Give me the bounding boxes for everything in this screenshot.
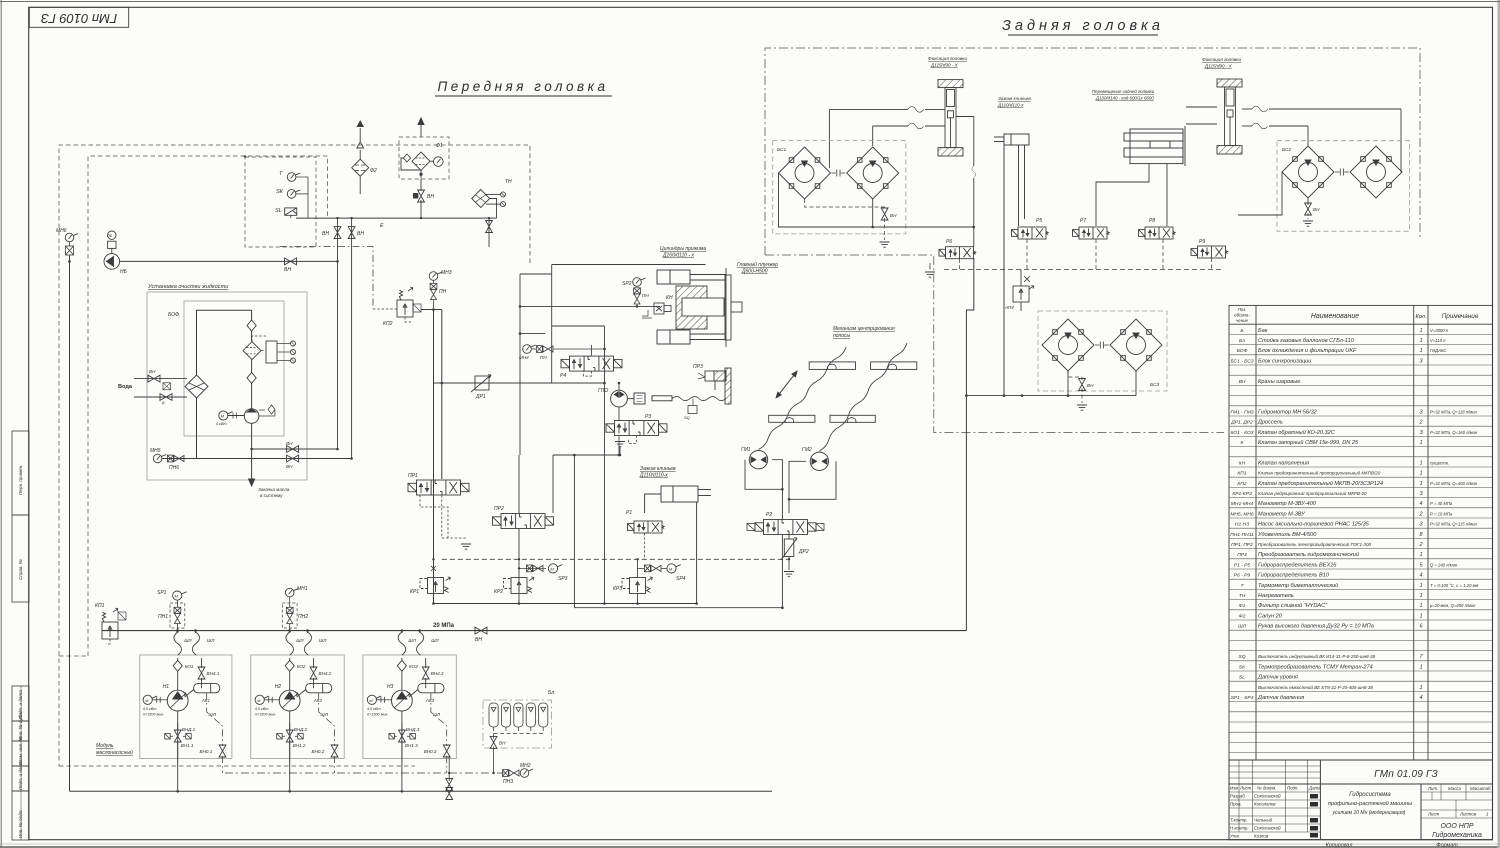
svg-text:МН5: МН5 xyxy=(150,448,161,454)
svg-text:ВН: ВН xyxy=(427,194,434,200)
svg-text:Фильтр сливной “HYDAC”: Фильтр сливной “HYDAC” xyxy=(1258,602,1328,609)
svg-text:ВН0.1: ВН0.1 xyxy=(200,749,213,754)
svg-text:1: 1 xyxy=(1419,613,1422,619)
R2 valve (double solenoid) xyxy=(755,520,816,535)
svg-text:ГИДАКС: ГИДАКС xyxy=(1430,348,1447,353)
svg-text:SQ: SQ xyxy=(684,415,690,420)
svg-text:SР4: SР4 xyxy=(676,576,686,582)
svg-text:ШЛ: ШЛ xyxy=(209,712,217,717)
svg-text:Преобразователь гидромеханичес: Преобразователь гидромеханический xyxy=(1258,551,1359,558)
GPO hydraulic motor with rack xyxy=(611,390,726,413)
svg-text:4,5 кВт: 4,5 кВт xyxy=(143,707,157,711)
sensor SL xyxy=(285,208,297,215)
svg-text:ШЛ: ШЛ xyxy=(184,638,192,643)
left margin boxes xyxy=(12,431,29,840)
svg-text:Лист: Лист xyxy=(1239,786,1252,791)
svg-text:Д115/d90 - Х: Д115/d90 - Х xyxy=(930,63,959,68)
svg-text:ВН: ВН xyxy=(499,741,506,746)
svg-text:ВН0.2: ВН0.2 xyxy=(312,749,325,754)
svg-text:НБ: НБ xyxy=(120,269,128,275)
dashed drain of rear head xyxy=(944,269,1224,271)
svg-text:Р5: Р5 xyxy=(1036,218,1042,224)
svg-text:усилием 10 Мн (модернизация): усилием 10 Мн (модернизация) xyxy=(1332,810,1406,816)
svg-text:1: 1 xyxy=(1419,471,1422,477)
svg-text:Зажим клиньев: Зажим клиньев xyxy=(998,96,1031,101)
pilot dash to KP2 xyxy=(280,247,373,310)
svg-text:1: 1 xyxy=(1419,328,1422,334)
svg-text:Н1-Н3: Н1-Н3 xyxy=(1235,522,1249,528)
svg-text:ПН2: ПН2 xyxy=(298,614,308,620)
svg-text:Справ. №: Справ. № xyxy=(18,559,23,580)
valves BH on risers from line E xyxy=(337,218,339,449)
roller bars xyxy=(769,362,917,422)
breather F2 xyxy=(352,121,369,194)
svg-text:в систему: в систему xyxy=(260,493,283,498)
svg-text:Н3: Н3 xyxy=(387,684,394,690)
svg-text:Д600-Н500: Д600-Н500 xyxy=(741,269,768,275)
svg-text:Р7: Р7 xyxy=(1080,218,1086,224)
svg-text:ГПО: ГПО xyxy=(598,388,608,394)
SP3 sensor set xyxy=(519,567,546,569)
R3 valve xyxy=(606,421,667,436)
MN3 / PN4 xyxy=(429,272,442,281)
svg-text:ВН: ВН xyxy=(1087,383,1094,388)
svg-text:ГМ1: ГМ1 xyxy=(741,447,751,453)
svg-text:Р = 10 МПа: Р = 10 МПа xyxy=(1430,511,1453,516)
svg-text:чение: чение xyxy=(1236,318,1249,323)
sensor T xyxy=(287,173,300,182)
svg-text:ПБ: ПБ xyxy=(107,233,113,238)
PR3 hydromech transducer xyxy=(698,368,731,404)
main plunger block (hatched) xyxy=(676,268,742,347)
svg-text:Р1: Р1 xyxy=(626,510,632,516)
svg-text:Инв. № дубл.: Инв. № дубл. xyxy=(18,712,23,740)
svg-text:ПН: ПН xyxy=(540,355,547,360)
svg-text:ГМ2: ГМ2 xyxy=(802,447,812,453)
svg-text:КП2: КП2 xyxy=(383,321,393,327)
svg-text:1: 1 xyxy=(1419,593,1422,599)
svg-text:Нагреватель: Нагреватель xyxy=(1258,593,1294,599)
svg-text:n=1500 мин: n=1500 мин xyxy=(367,713,389,717)
fixation 2 hoses to BS2 xyxy=(1186,107,1401,172)
tank drain near PR2 top xyxy=(553,447,620,513)
svg-text:Манометр М-3ВУ: Манометр М-3ВУ xyxy=(1258,511,1306,517)
line E xyxy=(296,217,497,219)
svg-text:Кол.: Кол. xyxy=(1416,314,1427,320)
svg-text:Масса: Масса xyxy=(1448,786,1462,791)
svg-text:Гидрораспределитель ВЕХ16: Гидрораспределитель ВЕХ16 xyxy=(1258,562,1337,568)
BOF circuit xyxy=(197,310,252,486)
AP4 pilot relief xyxy=(1013,270,1034,312)
svg-text:Р6 - Р9: Р6 - Р9 xyxy=(1234,573,1251,579)
svg-text:ООО НПР: ООО НПР xyxy=(1440,823,1473,830)
svg-text:Р4: Р4 xyxy=(560,373,566,379)
svg-text:1: 1 xyxy=(1419,583,1422,589)
svg-text:Листов: Листов xyxy=(1459,812,1477,817)
svg-text:Д110/d110-х: Д110/d110-х xyxy=(997,103,1024,108)
heater TN xyxy=(472,190,506,248)
svg-text:Бак: Бак xyxy=(1258,328,1268,334)
svg-text:4: 4 xyxy=(1419,501,1422,507)
svg-text:АК2: АК2 xyxy=(313,698,323,703)
svg-text:Д100/d140 - ход 600/1х 6600: Д100/d140 - ход 600/1х 6600 xyxy=(1095,96,1154,101)
svg-text:Передняя головка: Передняя головка xyxy=(438,79,609,94)
R1 valve xyxy=(628,521,665,533)
svg-text:ВН0.3: ВН0.3 xyxy=(424,749,437,754)
BS1 sync block xyxy=(773,141,906,234)
svg-text:БС2: БС2 xyxy=(1282,147,1291,153)
svg-text:1: 1 xyxy=(1419,338,1422,344)
svg-text:Лист: Лист xyxy=(1427,812,1440,817)
svg-text:Р6: Р6 xyxy=(946,239,952,245)
svg-text:Клапан редукционный пропорцион: Клапан редукционный пропорциональный МКР… xyxy=(1258,490,1367,496)
svg-text:КР2: КР2 xyxy=(494,589,503,595)
svg-text:Стойка газовых баллонов СГБл-1: Стойка газовых баллонов СГБл-110 xyxy=(1258,337,1355,344)
BS1 piping xyxy=(779,173,974,227)
svg-text:ПР2: ПР2 xyxy=(494,506,504,512)
svg-text:ШЛ: ШЛ xyxy=(296,638,304,643)
svg-text:Р3: Р3 xyxy=(645,414,651,420)
svg-text:Термометр биметаллический: Термометр биметаллический xyxy=(1258,582,1338,589)
svg-text:обозна-: обозна- xyxy=(1234,313,1250,318)
svg-text:Клапан предохранительный МКПВ-: Клапан предохранительный МКПВ-20/3С3Р124 xyxy=(1258,480,1383,487)
svg-text:МН1: МН1 xyxy=(297,586,308,592)
svg-text:МН6: МН6 xyxy=(56,228,67,234)
svg-text:ШЛ: ШЛ xyxy=(207,638,215,643)
suction gauge MN6 xyxy=(65,233,78,242)
MN4 gauge set on line y=349 xyxy=(523,345,536,354)
svg-text:Фиксация головки: Фиксация головки xyxy=(928,56,967,61)
svg-text:Наименование: Наименование xyxy=(1311,313,1359,320)
svg-text:Н1: Н1 xyxy=(163,684,170,690)
svg-text:Поз.: Поз. xyxy=(1238,307,1247,312)
KN fill valve xyxy=(642,303,671,318)
svg-text:ВН4.2: ВН4.2 xyxy=(319,671,332,676)
svg-text:Датчик давления: Датчик давления xyxy=(1257,695,1304,701)
svg-text:ВН1.1: ВН1.1 xyxy=(181,743,194,748)
bottom collector lines xyxy=(70,790,773,792)
svg-text:АК1: АК1 xyxy=(201,698,211,703)
svg-text:ВН4.1: ВН4.1 xyxy=(207,671,220,676)
filter F1 assembly xyxy=(399,137,449,179)
svg-text:№ докум.: № докум. xyxy=(1257,786,1276,791)
svg-text:Блок синхронизации: Блок синхронизации xyxy=(1258,358,1311,364)
svg-text:МН4: МН4 xyxy=(519,355,529,360)
svg-text:ШЛ: ШЛ xyxy=(431,638,439,643)
PR1 proportional valve xyxy=(408,480,469,495)
sensor wires xyxy=(291,177,308,218)
svg-text:Закачка масла: Закачка масла xyxy=(258,487,290,492)
svg-text:ГМ1 - ГМ3: ГМ1 - ГМ3 xyxy=(1230,409,1254,415)
svg-text:SL: SL xyxy=(1239,675,1245,681)
MN1 + PN2 xyxy=(285,588,298,597)
BOF filter with bypass xyxy=(243,336,296,363)
svg-text:ВН: ВН xyxy=(286,441,293,446)
svg-text:Инв. № подл.: Инв. № подл. xyxy=(18,809,23,838)
svg-text:ВН4.3: ВН4.3 xyxy=(431,671,444,676)
svg-text:ДР1, ДР2: ДР1, ДР2 xyxy=(1230,420,1253,426)
svg-text:ПН1: ПН1 xyxy=(158,614,168,620)
R5 R7 R8 R9 valves xyxy=(1012,227,1049,239)
drain collectors xyxy=(434,603,697,605)
svg-text:Примечание: Примечание xyxy=(1442,313,1479,320)
svg-text:ТН: ТН xyxy=(1239,593,1246,599)
svg-text:1: 1 xyxy=(1419,481,1422,487)
svg-text:Вода: Вода xyxy=(118,384,133,390)
svg-text:1: 1 xyxy=(1419,664,1422,670)
flexible drive cables xyxy=(759,343,908,451)
svg-text:ПР3: ПР3 xyxy=(693,364,703,370)
svg-text:КР3: КР3 xyxy=(613,586,622,592)
svg-text:Косолапов: Косолапов xyxy=(1254,802,1276,807)
svg-text:ГМп 0109 ГЗ: ГМп 0109 ГЗ xyxy=(41,11,117,26)
svg-text:Р1 - Р5: Р1 - Р5 xyxy=(1234,562,1251,568)
svg-text:БС3: БС3 xyxy=(1150,382,1159,388)
svg-text:Рукав высокого давления Ду32 Р: Рукав высокого давления Ду32 Рy = 10 МПа xyxy=(1258,624,1374,630)
svg-text:Датчик уровня: Датчик уровня xyxy=(1257,675,1298,681)
line from rear head down to main line xyxy=(966,258,973,631)
svg-text:SL: SL xyxy=(275,208,282,214)
svg-text:Клапан обратный КО-20.32С: Клапан обратный КО-20.32С xyxy=(1258,429,1336,436)
svg-text:ПР3: ПР3 xyxy=(1237,552,1247,558)
svg-text:1: 1 xyxy=(1419,348,1422,354)
enclosure dash-dot xyxy=(765,48,1420,433)
KR3 xyxy=(622,577,653,594)
svg-text:ВН: ВН xyxy=(1313,207,1320,212)
svg-text:ПН: ПН xyxy=(642,293,649,298)
svg-text:АК3: АК3 xyxy=(425,698,435,703)
svg-text:Ф1: Ф1 xyxy=(1239,603,1246,609)
svg-text:Цилиндры прижима: Цилиндры прижима xyxy=(660,246,706,252)
svg-text:БОФ: БОФ xyxy=(168,312,179,318)
module boxes xyxy=(140,655,457,759)
svg-text:профильно-растяжной машины: профильно-растяжной машины xyxy=(1328,800,1412,807)
svg-text:КО3: КО3 xyxy=(409,664,418,669)
svg-text:Р=32 МПа, Q=118 л/мин: Р=32 МПа, Q=118 л/мин xyxy=(1430,409,1478,414)
svg-text:Перемещение задней головки: Перемещение задней головки xyxy=(1092,89,1155,94)
svg-text:К: К xyxy=(162,401,165,406)
svg-text:Д110/d110-х: Д110/d110-х xyxy=(639,473,668,479)
svg-text:АП4: АП4 xyxy=(1004,305,1014,310)
KP2 proportional relief xyxy=(373,287,442,322)
svg-text:ПН3: ПН3 xyxy=(503,779,513,785)
svg-text:маслонасосный: маслонасосный xyxy=(96,749,133,756)
svg-text:Ф2: Ф2 xyxy=(1239,613,1246,619)
svg-text:Удовентиль ВМ-4/500: Удовентиль ВМ-4/500 xyxy=(1257,532,1317,538)
svg-text:Клапан наполнения: Клапан наполнения xyxy=(1258,460,1309,466)
svg-text:Соколинский: Соколинский xyxy=(1254,826,1281,831)
svg-text:ДР1: ДР1 xyxy=(475,394,486,400)
svg-text:Главный плунжер: Главный плунжер xyxy=(737,261,778,268)
svg-text:V=110 л: V=110 л xyxy=(1430,338,1446,343)
svg-text:1: 1 xyxy=(1419,685,1422,691)
svg-text:Н.контр.: Н.контр. xyxy=(1230,826,1249,831)
PR2 xyxy=(493,514,554,529)
supply risers xyxy=(433,310,435,604)
svg-text:КП1: КП1 xyxy=(95,603,105,609)
pump variable arrows overlay xyxy=(170,692,410,708)
svg-text:ПР1: ПР1 xyxy=(408,473,418,479)
svg-text:ВНД.2: ВНД.2 xyxy=(294,727,308,732)
svg-text:Утв.: Утв. xyxy=(1230,834,1240,839)
motor brackets and feed lines xyxy=(745,460,836,519)
sensor SK xyxy=(287,190,300,199)
SP4 set xyxy=(644,565,661,572)
svg-text:Дата: Дата xyxy=(1308,786,1321,791)
ports of fixation cylinder 1 xyxy=(829,109,973,246)
svg-text:SК: SК xyxy=(276,189,284,195)
svg-text:4: 4 xyxy=(1419,695,1422,701)
svg-text:μ=20 мкм, Q=400 л/мин: μ=20 мкм, Q=400 л/мин xyxy=(1429,603,1476,608)
pump module H2 xyxy=(290,631,314,792)
module 3 drain riser to dash-dot xyxy=(448,756,450,781)
svg-text:КП2: КП2 xyxy=(1237,481,1246,487)
svg-text:Преобразователь электрогидравл: Преобразователь электрогидравлический ПЭ… xyxy=(1258,541,1371,547)
svg-text:Т.контр.: Т.контр. xyxy=(1230,818,1248,823)
MN2 / PN3 at end of dash-dot drain xyxy=(502,770,519,777)
svg-text:ПН1-ПН11: ПН1-ПН11 xyxy=(1230,532,1254,538)
svg-text:Изм: Изм xyxy=(1230,786,1238,791)
svg-text:ВНД.1: ВНД.1 xyxy=(182,727,196,732)
svg-text:ШЛ: ШЛ xyxy=(319,638,327,643)
DR1 throttle on cross line xyxy=(434,382,605,384)
svg-text:Взам. инв. №: Взам. инв. № xyxy=(18,737,23,765)
svg-text:SР3: SР3 xyxy=(558,576,568,582)
svg-text:SР1: SР1 xyxy=(157,590,167,596)
svg-text:КО1: КО1 xyxy=(185,664,194,669)
svg-text:ШЛ: ШЛ xyxy=(408,638,416,643)
svg-text:Гидрораспределитель В10: Гидрораспределитель В10 xyxy=(1258,573,1330,579)
svg-text:Разраб.: Разраб. xyxy=(1230,794,1246,799)
svg-text:V=3000 л: V=3000 л xyxy=(1430,328,1449,333)
heat exchanger xyxy=(185,375,208,398)
svg-text:Блок охлаждения и фильтрации U: Блок охлаждения и фильтрации UKF xyxy=(1258,348,1357,354)
svg-text:ВН: ВН xyxy=(149,369,156,374)
svg-text:полосы: полосы xyxy=(833,333,851,339)
svg-text:Т = 0-100 °С, L = 1.20 мм: Т = 0-100 °С, L = 1.20 мм xyxy=(1430,583,1478,588)
svg-text:Е: Е xyxy=(380,223,384,229)
svg-text:Термопреобразователь ТСМУ Метр: Термопреобразователь ТСМУ Метран-274 xyxy=(1258,664,1373,670)
BS3 sync block xyxy=(1038,311,1167,391)
svg-text:Чельный: Чельный xyxy=(1254,818,1273,823)
svg-text:Р = 40 МПа: Р = 40 МПа xyxy=(1430,501,1453,506)
suction line down-left xyxy=(69,255,71,791)
svg-text:Р8: Р8 xyxy=(1149,218,1155,224)
E line junction dots xyxy=(244,155,490,219)
svg-text:Р2: Р2 xyxy=(766,512,772,518)
svg-text:ВН: ВН xyxy=(322,231,329,237)
svg-text:МН5, МН6: МН5, МН6 xyxy=(1230,511,1254,517)
svg-text:КР1: КР1 xyxy=(410,589,419,595)
svg-text:n=1500 мин: n=1500 мин xyxy=(255,713,277,717)
svg-text:Фиксация головки: Фиксация головки xyxy=(1202,57,1241,62)
svg-text:ВН1.2: ВН1.2 xyxy=(293,743,306,748)
svg-text:КО1 - КО3: КО1 - КО3 xyxy=(1230,430,1253,436)
svg-text:Ф1: Ф1 xyxy=(436,143,443,149)
BS2 sync block xyxy=(1277,141,1410,232)
svg-text:КН: КН xyxy=(1239,460,1246,466)
svg-text:Выключатель емкостной ВЕ ЕТ8-3: Выключатель емкостной ВЕ ЕТ8-31-Р-20-400… xyxy=(1258,684,1373,690)
R2 left leg to drain collector xyxy=(781,535,783,608)
relief valve KP1 xyxy=(102,608,126,644)
svg-text:ТН: ТН xyxy=(505,179,512,185)
svg-text:4,5 кВт: 4,5 кВт xyxy=(367,707,381,711)
travel cylinder feed lines xyxy=(1096,164,1167,226)
titles xyxy=(438,18,1164,94)
svg-text:ВН1.3: ВН1.3 xyxy=(405,743,418,748)
svg-text:Клапан предохранительный пропо: Клапан предохранительный пропорциональны… xyxy=(1258,470,1381,476)
svg-text:Бл: Бл xyxy=(1239,338,1245,344)
svg-text:Подп. и дата: Подп. и дата xyxy=(18,761,23,790)
long dashed drain line xyxy=(442,558,789,560)
svg-text:SР2: SР2 xyxy=(622,281,632,287)
main pressure line 20 MPa xyxy=(102,630,966,632)
SP1 + PN1 xyxy=(173,591,187,600)
pump module H1 xyxy=(178,631,202,792)
svg-text:МН1-МН4: МН1-МН4 xyxy=(1231,501,1254,507)
svg-text:КН: КН xyxy=(666,295,673,301)
svg-text:Манометр М-3ВУ-400: Манометр М-3ВУ-400 xyxy=(1258,501,1317,507)
svg-text:Подп.: Подп. xyxy=(1287,786,1299,791)
svg-text:Пров.: Пров. xyxy=(1230,802,1242,807)
svg-text:4,5 кВт: 4,5 кВт xyxy=(255,707,269,711)
svg-text:Установка очистки жидкости: Установка очистки жидкости xyxy=(147,284,228,290)
svg-text:КР1-КР3: КР1-КР3 xyxy=(1232,491,1252,497)
svg-text:ДР2: ДР2 xyxy=(798,549,809,555)
svg-text:ВН: ВН xyxy=(357,231,364,237)
gas bottle rack Bl xyxy=(483,700,552,748)
svg-text:БС1 - БС3: БС1 - БС3 xyxy=(1230,358,1253,364)
svg-text:Р=32 МПа, Q=400 л/мин: Р=32 МПа, Q=400 л/мин xyxy=(1430,481,1478,486)
dashed box B (inner) xyxy=(88,156,328,656)
svg-text:ШЛ: ШЛ xyxy=(1238,624,1247,630)
svg-text:Р=32 МПа, Q=160 л/мин: Р=32 МПа, Q=160 л/мин xyxy=(1430,430,1478,435)
svg-text:Перв. примен.: Перв. примен. xyxy=(18,464,23,495)
svg-text:20 МПа: 20 МПа xyxy=(433,623,455,629)
svg-text:Р=32 МПа, Q=115 л/мин: Р=32 МПа, Q=115 л/мин xyxy=(1430,522,1478,527)
svg-text:ВН: ВН xyxy=(890,213,897,218)
svg-text:МН2: МН2 xyxy=(520,763,531,769)
motion double arrow xyxy=(776,371,797,397)
svg-text:Д115/d90 - Х: Д115/d90 - Х xyxy=(1204,64,1233,69)
svg-text:Ф2: Ф2 xyxy=(370,168,377,174)
svg-text:Козлов: Козлов xyxy=(1254,834,1269,839)
svg-text:ВН: ВН xyxy=(475,637,482,643)
svg-text:1: 1 xyxy=(1419,552,1422,558)
svg-text:КП1: КП1 xyxy=(1237,471,1246,477)
svg-text:SР1 - SР4: SР1 - SР4 xyxy=(1231,695,1254,701)
sensors dashed box xyxy=(245,157,316,247)
R4 valve xyxy=(561,356,622,371)
pump module H3 xyxy=(402,631,426,792)
svg-text:4 кВт: 4 кВт xyxy=(216,422,227,426)
svg-text:n=1500 мин: n=1500 мин xyxy=(143,713,165,717)
svg-text:существ.: существ. xyxy=(1430,460,1449,465)
svg-text:Механизм центрирования: Механизм центрирования xyxy=(833,326,895,332)
svg-text:КО2: КО2 xyxy=(297,664,306,669)
svg-text:Д160/d110 - х: Д160/d110 - х xyxy=(662,253,694,259)
svg-text:БОФ: БОФ xyxy=(1237,348,1248,354)
svg-text:Гидромеханика: Гидромеханика xyxy=(1432,831,1482,839)
svg-text:Гидросистема: Гидросистема xyxy=(1349,792,1391,798)
svg-text:Дроссель: Дроссель xyxy=(1257,420,1283,426)
svg-text:ПН: ПН xyxy=(439,289,447,295)
svg-text:SQ: SQ xyxy=(1238,654,1245,660)
svg-text:Выключатель индуктивный ВК И14: Выключатель индуктивный ВК И14-31-Р-8-25… xyxy=(1258,653,1376,659)
svg-text:1: 1 xyxy=(1419,460,1422,466)
DR2 xyxy=(781,535,797,571)
dashed box A (front head boundary) xyxy=(59,145,530,766)
